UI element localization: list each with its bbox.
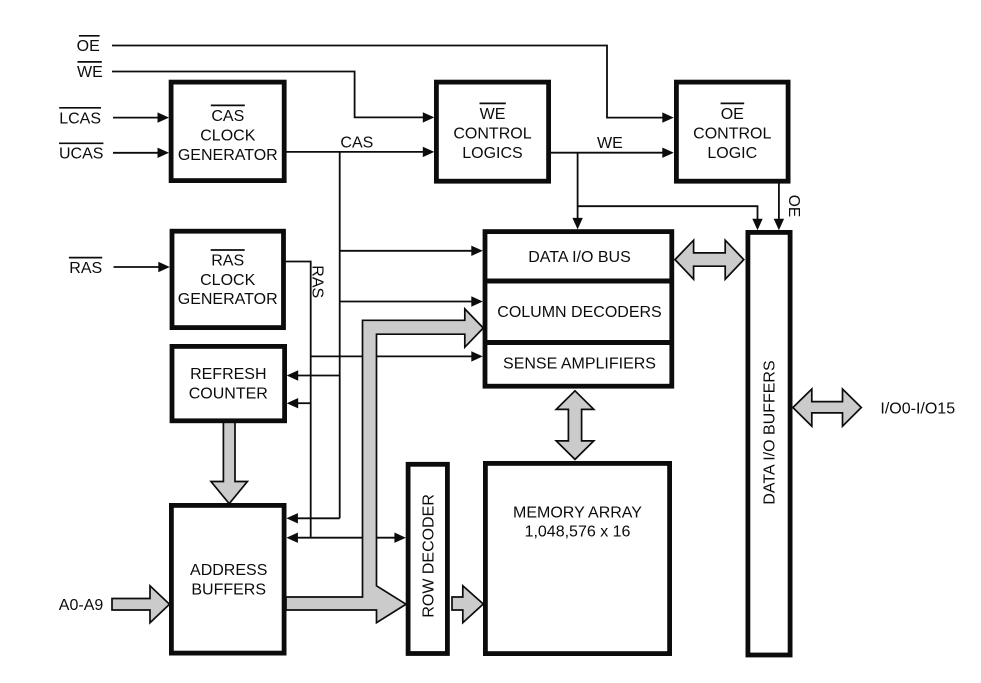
svg-text:WE: WE — [480, 106, 506, 123]
svg-text:CONTROL: CONTROL — [693, 126, 771, 143]
bus arrow A0-A9 input — [112, 586, 170, 623]
svg-text:WE: WE — [597, 135, 623, 152]
wire CAS branch to DATA I/O BUS — [340, 250, 472, 252]
box U7 ROW DECODER — [408, 464, 447, 653]
wire RAS output and vertical trunk — [286, 262, 311, 538]
bus arrow SENSE AMPLIFIERS to MEMORY ARRAY (bidirectional) — [556, 391, 594, 460]
wire CAS vertical trunk — [339, 152, 341, 518]
svg-text:GENERATOR: GENERATOR — [178, 147, 278, 164]
svg-text:OE: OE — [721, 106, 744, 123]
box U9 DATA I/O BUS / COLUMN DECODERS / SENSE AMPLIFIERS — [485, 232, 672, 387]
wire WE top (from WE pin to WE CONTROL LOGICS) — [112, 72, 424, 118]
bus arrow address bus elbow to COLUMN DECODERS and ROW DECODER — [286, 309, 483, 623]
svg-text:SENSE AMPLIFIERS: SENSE AMPLIFIERS — [503, 356, 656, 373]
box U10 DATA I/O BUFFERS — [748, 232, 790, 655]
wire OE top (from OE pin to OE CONTROL LOGIC) — [112, 46, 663, 118]
svg-text:CONTROL: CONTROL — [453, 126, 531, 143]
bus arrow REFRESH COUNTER to ADDRESS BUFFERS — [211, 422, 247, 504]
wire WE output to OE CONTROL LOGIC — [551, 152, 664, 154]
box U5 REFRESH COUNTER — [172, 346, 285, 420]
bus arrow DATA I/O BUS to DATA I/O BUFFERS (bidirectional) — [675, 240, 744, 279]
box U2 WE CONTROL LOGICS — [436, 82, 548, 181]
svg-text:LOGIC: LOGIC — [707, 145, 757, 162]
svg-text:REFRESH: REFRESH — [190, 366, 266, 383]
svg-text:CLOCK: CLOCK — [200, 272, 255, 289]
wire OE output down to DATA I/O BUFFERS — [778, 184, 780, 220]
wire CAS branch to REFRESH COUNTER — [298, 375, 340, 377]
svg-text:UCAS: UCAS — [59, 146, 103, 163]
svg-text:I/O0-I/O15: I/O0-I/O15 — [880, 400, 955, 417]
svg-text:ROW DECODER: ROW DECODER — [420, 494, 437, 618]
box U3 OE CONTROL LOGIC — [676, 82, 788, 181]
svg-text:LOGICS: LOGICS — [462, 145, 522, 162]
box U1 CAS CLOCK GENERATOR — [171, 82, 284, 181]
svg-text:COUNTER: COUNTER — [189, 385, 268, 402]
wire CAS branch to COLUMN DECODERS — [340, 301, 472, 303]
wire LCAS input — [113, 117, 158, 119]
svg-text:MEMORY ARRAY: MEMORY ARRAY — [513, 505, 642, 522]
wire RAS branch to SENSE AMPLIFIERS — [311, 355, 472, 357]
wire WE branch down to DATA I/O BUS — [577, 153, 579, 219]
bus arrow DATA I/O BUFFERS to I/O pins (bidirectional) — [793, 389, 861, 426]
wire RAS branch to ADDRESS BUFFERS and ROW DECODER — [297, 537, 395, 539]
wire WE branch right to DATA I/O BUFFERS — [578, 206, 758, 219]
svg-text:RAS: RAS — [309, 265, 326, 298]
wire RAS input — [114, 266, 160, 268]
svg-text:DATA I/O BUFFERS: DATA I/O BUFFERS — [762, 360, 779, 504]
box U4 RAS CLOCK GENERATOR — [172, 231, 284, 327]
svg-text:CAS: CAS — [211, 108, 244, 125]
wire CAS branch to ADDRESS BUFFERS — [297, 517, 340, 519]
svg-text:ADDRESS: ADDRESS — [190, 562, 267, 579]
svg-text:1,048,576 x 16: 1,048,576 x 16 — [525, 523, 631, 540]
box U8 MEMORY ARRAY — [485, 463, 669, 653]
svg-text:GENERATOR: GENERATOR — [178, 291, 278, 308]
svg-text:LCAS: LCAS — [59, 110, 101, 127]
svg-text:CAS: CAS — [340, 134, 373, 151]
bus arrow ROW DECODER to MEMORY ARRAY — [452, 586, 483, 623]
svg-text:CLOCK: CLOCK — [200, 128, 255, 145]
wire CAS output to WE CONTROL LOGICS — [286, 151, 424, 153]
svg-text:BUFFERS: BUFFERS — [191, 582, 266, 599]
wire RAS branch to REFRESH COUNTER — [298, 402, 311, 404]
svg-text:DATA I/O BUS: DATA I/O BUS — [528, 249, 631, 266]
svg-text:COLUMN DECODERS: COLUMN DECODERS — [497, 304, 661, 321]
svg-text:RAS: RAS — [211, 253, 244, 270]
svg-text:OE: OE — [785, 195, 802, 217]
svg-text:RAS: RAS — [69, 260, 102, 277]
svg-text:A0-A9: A0-A9 — [59, 597, 104, 614]
box U6 ADDRESS BUFFERS — [171, 505, 284, 653]
svg-text:OE: OE — [77, 38, 100, 55]
svg-text:WE: WE — [77, 64, 103, 81]
wire UCAS input — [113, 152, 158, 154]
